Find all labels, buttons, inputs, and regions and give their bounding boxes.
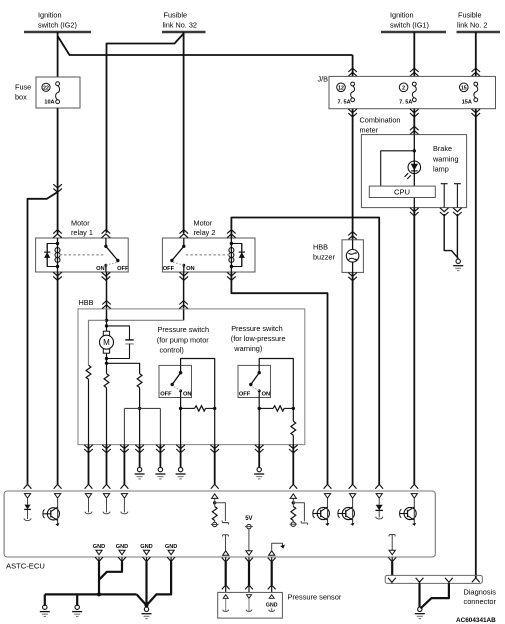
- svg-text:Fuse: Fuse: [15, 83, 31, 92]
- svg-text:(for pump motor: (for pump motor: [157, 335, 209, 344]
- svg-text:ON: ON: [186, 266, 195, 272]
- svg-text:2: 2: [402, 85, 405, 91]
- svg-text:Diagnosis: Diagnosis: [464, 587, 497, 596]
- svg-text:link No. 2: link No. 2: [457, 21, 487, 30]
- svg-text:(for low-pressure: (for low-pressure: [231, 334, 286, 343]
- svg-text:Brake: Brake: [433, 144, 452, 153]
- svg-text:switch (IG2): switch (IG2): [38, 21, 77, 30]
- svg-text:relay 2: relay 2: [194, 228, 216, 237]
- svg-text:15A: 15A: [462, 100, 472, 106]
- svg-text:meter: meter: [360, 125, 379, 134]
- svg-text:Pressure sensor: Pressure sensor: [288, 593, 342, 602]
- svg-text:5V: 5V: [245, 516, 252, 522]
- svg-text:switch (IG1): switch (IG1): [390, 21, 429, 30]
- svg-text:box: box: [15, 93, 27, 102]
- svg-text:ON: ON: [183, 391, 192, 397]
- svg-text:lamp: lamp: [433, 165, 449, 174]
- svg-text:ON: ON: [262, 391, 271, 397]
- svg-text:Fusible: Fusible: [164, 11, 188, 20]
- svg-text:Ignition: Ignition: [390, 11, 414, 20]
- svg-text:7. 5A: 7. 5A: [337, 100, 350, 106]
- svg-text:CPU: CPU: [394, 188, 410, 197]
- svg-text:GND: GND: [140, 544, 152, 550]
- svg-text:HBB: HBB: [313, 243, 328, 252]
- svg-text:connector: connector: [464, 597, 497, 606]
- svg-text:relay 1: relay 1: [71, 228, 93, 237]
- svg-text:warning): warning): [233, 344, 262, 353]
- svg-text:warning: warning: [432, 154, 459, 163]
- svg-text:OFF: OFF: [239, 391, 251, 397]
- svg-text:OFF: OFF: [163, 266, 175, 272]
- svg-text:ON: ON: [96, 266, 105, 272]
- svg-text:Fusible: Fusible: [458, 11, 482, 20]
- svg-text:GND: GND: [165, 544, 177, 550]
- svg-text:M: M: [103, 338, 110, 347]
- svg-text:15: 15: [461, 85, 467, 91]
- svg-text:10A: 10A: [44, 100, 54, 106]
- svg-text:Pressure switch: Pressure switch: [231, 324, 283, 333]
- svg-text:OFF: OFF: [117, 266, 129, 272]
- svg-text:Motor: Motor: [71, 219, 90, 228]
- svg-text:12: 12: [338, 85, 344, 91]
- svg-text:ASTC-ECU: ASTC-ECU: [6, 562, 45, 571]
- svg-text:Pressure switch: Pressure switch: [158, 325, 210, 334]
- svg-text:AC604341AB: AC604341AB: [456, 617, 496, 624]
- svg-text:Motor: Motor: [194, 219, 213, 228]
- svg-text:OFF: OFF: [160, 391, 172, 397]
- svg-text:22: 22: [43, 85, 49, 91]
- svg-text:GND: GND: [116, 544, 128, 550]
- svg-text:Combination: Combination: [360, 115, 401, 124]
- svg-text:7. 5A: 7. 5A: [399, 100, 412, 106]
- svg-text:buzzer: buzzer: [313, 253, 335, 262]
- svg-text:link No. 32: link No. 32: [163, 21, 197, 30]
- svg-text:GND: GND: [93, 544, 105, 550]
- svg-text:Ignition: Ignition: [38, 11, 62, 20]
- svg-text:J/B: J/B: [317, 75, 328, 84]
- svg-text:control): control): [160, 345, 184, 354]
- svg-text:HBB: HBB: [79, 298, 94, 307]
